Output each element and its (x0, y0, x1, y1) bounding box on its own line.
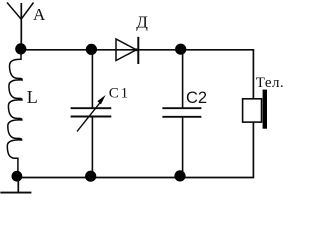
wire C2 top lead (182, 49, 184, 108)
svg-text:Д: Д (136, 13, 148, 32)
svg-text:Тел.: Тел. (256, 75, 284, 91)
node: C1 top junction dot (86, 44, 97, 55)
node: C2 bottom junction dot (174, 170, 185, 181)
wire C1 top lead (91, 50, 93, 109)
capacitor C2 top plate (162, 107, 201, 109)
wire right branch lower (252, 122, 254, 178)
svg-text:А: А (33, 5, 46, 24)
top wire (21, 49, 253, 51)
diode cathode bar (137, 37, 139, 64)
telephone body rectangle (243, 99, 262, 122)
inductor L coil (7, 54, 22, 172)
capacitor C1 bottom plate (71, 116, 112, 118)
antenna left prong (7, 3, 21, 20)
ground line (0, 192, 31, 194)
capacitor C1 top plate (71, 107, 112, 109)
telephone membrane bar (263, 90, 267, 129)
node: diode apex junction (135, 48, 138, 51)
antenna right prong (21, 3, 33, 20)
node: C2 top junction dot (175, 44, 186, 55)
C1 variable arrow shaft (77, 100, 102, 132)
node: coil bottom / ground junction dot (12, 171, 23, 182)
wire C2 bottom lead (182, 117, 184, 178)
svg-text:C2: C2 (186, 89, 207, 107)
wire C1 bottom lead (91, 117, 93, 178)
svg-text:L: L (27, 87, 38, 107)
svg-text:C1: C1 (109, 86, 130, 102)
C1 arrow head (97, 95, 105, 104)
diode D triangle (116, 39, 136, 61)
wire right branch upper (252, 49, 254, 99)
node: C1 bottom junction dot (85, 171, 96, 182)
bottom wire (17, 177, 253, 179)
ground stub wire (17, 177, 19, 193)
node: antenna / coil junction dot (15, 43, 26, 54)
antenna mast wire (20, 3, 22, 50)
capacitor C2 bottom plate (162, 116, 201, 118)
